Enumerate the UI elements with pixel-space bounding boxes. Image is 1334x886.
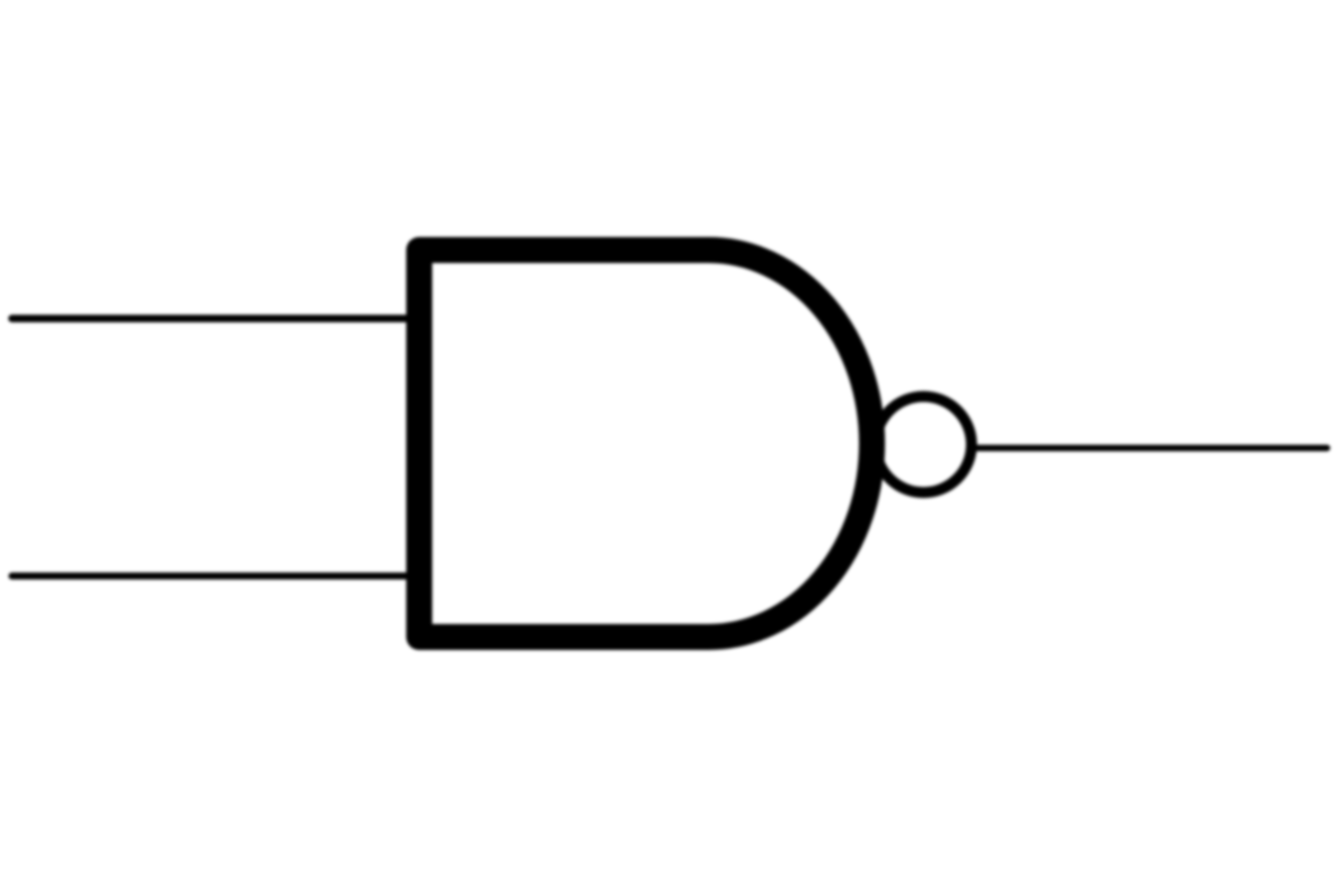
nand gate U1 body (AND shape) [419, 250, 872, 637]
wire input A (top) [12, 315, 425, 323]
wire output Q [975, 445, 1327, 452]
wire input B (bottom) [12, 573, 425, 580]
inversion bubble [876, 397, 972, 493]
